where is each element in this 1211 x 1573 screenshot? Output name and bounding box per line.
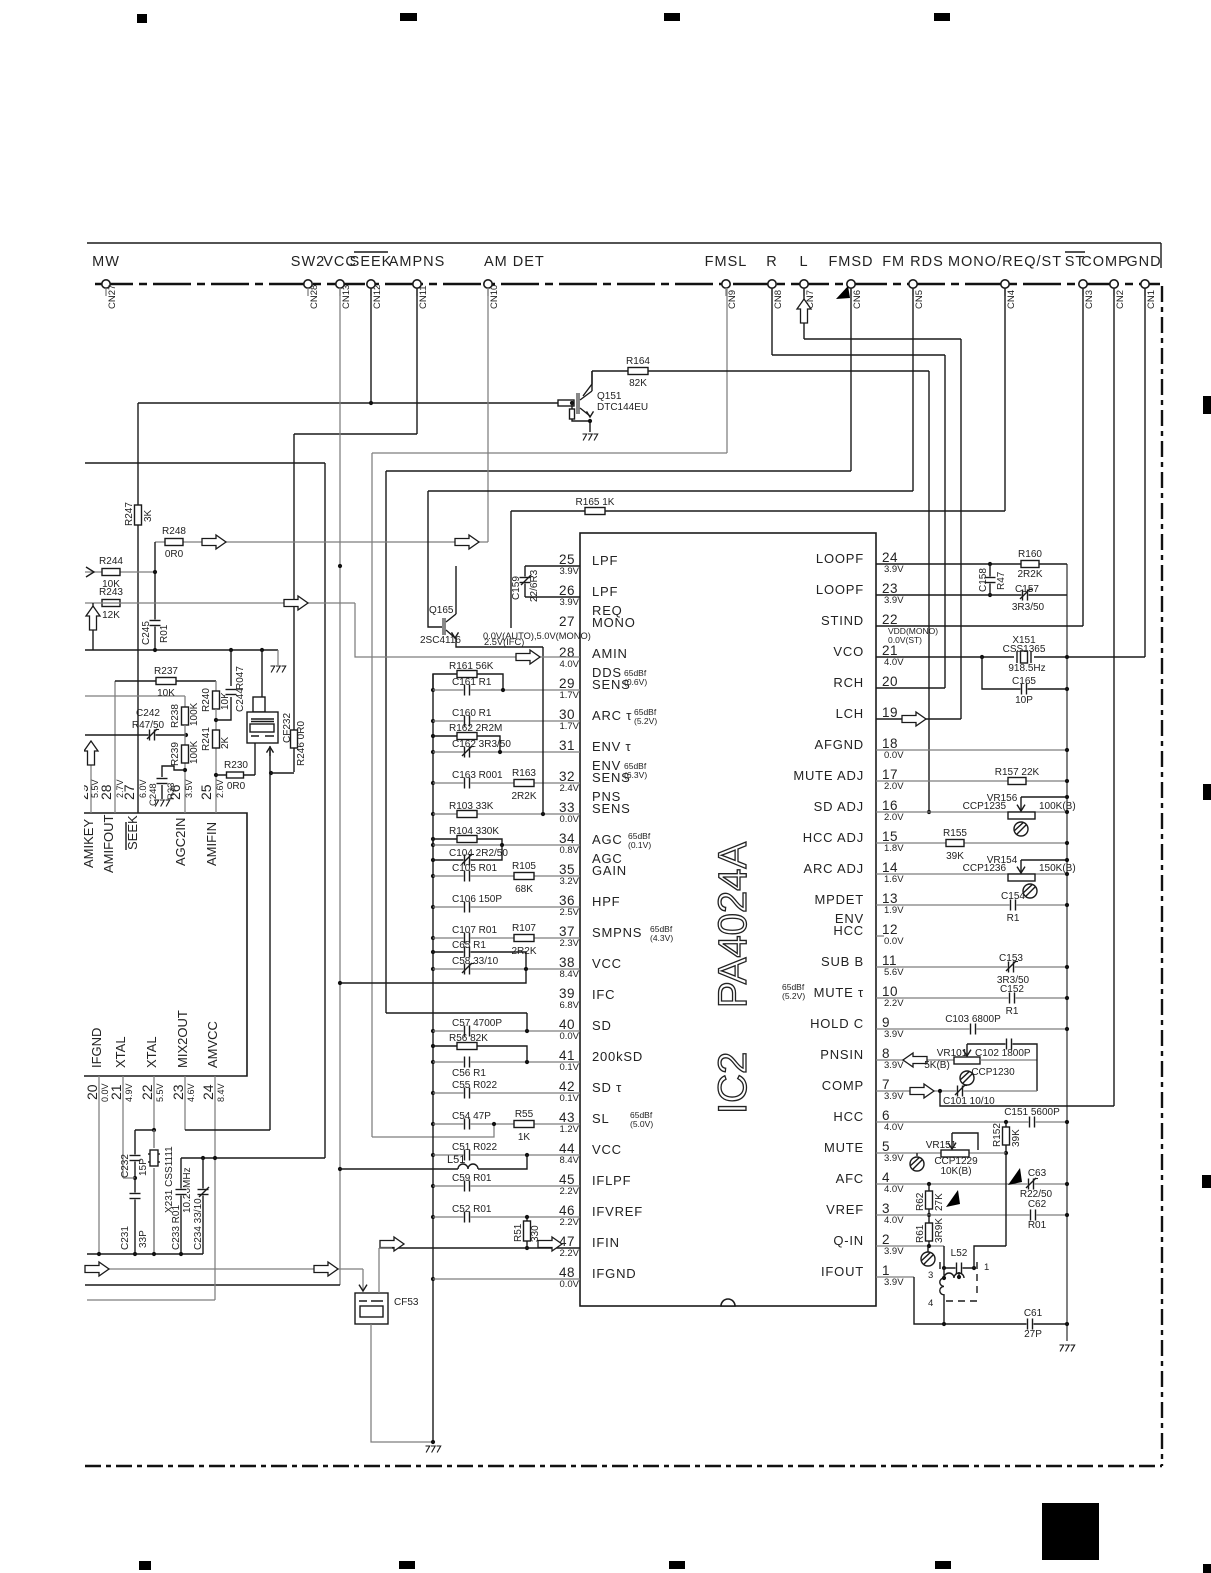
wire AMPNS horizontal jog [294,433,417,435]
svg-text:5.6V: 5.6V [884,967,904,978]
wire pin 18 AFGND row [876,749,1067,751]
svg-text:R01: R01 [159,624,170,643]
svg-text:29: 29 [559,676,575,691]
wire MIX2OUT riser up to CF232 [269,750,271,1130]
svg-text:(5.0V): (5.0V) [630,1119,653,1129]
resistor R51 330 (vertical) [526,1217,528,1248]
svg-text:C151 5600P: C151 5600P [1004,1107,1060,1118]
svg-text:C160 R1: C160 R1 [452,708,492,719]
wire pin 14 ARC ADJ row [876,873,1067,875]
svg-text:C56 R1: C56 R1 [452,1068,486,1079]
printer registration mark bottom-2 [399,1561,415,1569]
svg-text:22: 22 [139,1084,155,1100]
svg-text:0R0: 0R0 [227,781,246,792]
signal arrow on CF53 feed (right) [314,1262,338,1276]
wire FMSD vertical down to SD row [385,471,387,1013]
svg-text:R47/50: R47/50 [132,720,165,731]
svg-text:R162 2R2M: R162 2R2M [449,723,502,734]
svg-text:C157: C157 [1015,584,1039,595]
svg-text:R01: R01 [1028,1220,1047,1231]
resistor R61 3R9K (vertical) [928,1215,930,1246]
svg-text:SL: SL [592,1111,610,1126]
svg-text:IFGND: IFGND [592,1266,636,1281]
svg-text:27: 27 [121,784,137,800]
svg-text:1.7V: 1.7V [559,721,579,732]
svg-text:10: 10 [882,984,898,999]
resistor R55 1K (pin 43 row) [514,1121,534,1128]
svg-text:MONO: MONO [592,615,636,630]
capacitor C158 R47 (vertical) [989,564,991,595]
svg-text:CN28: CN28 [309,285,320,309]
svg-text:R62: R62 [915,1192,926,1211]
connector CN5 (FM RDS) [909,280,917,288]
svg-text:VR101: VR101 [937,1048,968,1059]
svg-text:SEEK: SEEK [350,254,393,270]
svg-text:0.0V: 0.0V [884,936,904,947]
capacitor C165 10P [982,657,1067,689]
svg-text:SEEK: SEEK [125,815,140,850]
IC1 pin 21 bottom stub [122,1076,124,1178]
svg-text:47: 47 [559,1234,575,1249]
svg-text:4.0V: 4.0V [884,1122,904,1133]
svg-text:MUTE ADJ: MUTE ADJ [793,768,864,783]
trimmer VR156 CCP1235 100K(B) [1008,812,1035,819]
printer registration mark right-1 [1203,396,1211,414]
svg-text:918.5Hz: 918.5Hz [1008,663,1045,674]
svg-text:1K: 1K [518,1132,531,1143]
resistor R105 68K (pin 35 row) [514,873,534,880]
junction dot VCC to Q165 collector [338,564,342,568]
svg-text:25: 25 [198,784,214,800]
svg-text:R247: R247 [124,502,135,526]
wire Q151 collector [583,371,592,396]
capacitor C102 1800P [967,1044,1037,1091]
svg-text:GAIN: GAIN [592,863,627,878]
svg-text:LPF: LPF [592,584,618,599]
svg-text:5.5V: 5.5V [90,779,100,798]
wire pin34 row [433,844,580,846]
svg-text:2.2V: 2.2V [559,1217,579,1228]
svg-text:AGC2IN: AGC2IN [173,818,188,866]
ceramic filter CF232 [253,697,265,712]
svg-text:10P: 10P [1015,695,1033,706]
svg-text:27: 27 [559,614,575,629]
printer registration mark bottom-right corner [1203,1564,1211,1573]
signal arrow at left edge x93 upper [92,603,94,650]
wire pin 23 LOOPF row with C157 [876,594,1067,596]
svg-text:ENV τ: ENV τ [592,739,632,754]
svg-text:Q-IN: Q-IN [833,1233,864,1248]
capacitor C107 (pin 37 row) [433,937,580,939]
svg-text:C51 R022: C51 R022 [452,1142,497,1153]
svg-text:LPF: LPF [592,553,618,568]
svg-text:2.0V: 2.0V [884,781,904,792]
svg-text:C103 6800P: C103 6800P [945,1014,1001,1025]
svg-text:SENS: SENS [592,801,631,816]
svg-text:0.0V: 0.0V [559,1031,579,1042]
svg-text:8.4V: 8.4V [559,969,579,980]
wire FM RDS vertical to Q165 base [428,491,443,627]
svg-text:2.4V: 2.4V [559,783,579,794]
IC IC1 body (partial, page-clipped) [83,813,247,1076]
connector CN28 (SW2) [304,280,312,288]
IC IC2 PA4024A body [580,533,876,1306]
svg-text:AFC: AFC [836,1171,864,1186]
signal arrow on LCH [902,712,926,726]
svg-text:3.9V: 3.9V [884,1091,904,1102]
svg-text:25: 25 [559,552,575,567]
ceramic filter CF53 [362,1269,364,1290]
svg-text:0.1V: 0.1V [559,1062,579,1073]
svg-text:1.6V: 1.6V [884,874,904,885]
printer registration mark bottom-4 [935,1561,951,1569]
svg-text:C107 R01: C107 R01 [452,925,497,936]
svg-text:38: 38 [559,955,575,970]
svg-text:4: 4 [928,1298,933,1309]
svg-text:(5.2V): (5.2V) [634,716,657,726]
wire pin27 riser vertical [510,511,512,628]
svg-text:C162 3R3/50: C162 3R3/50 [452,739,511,750]
capacitor C65 R1 [433,952,526,969]
svg-text:R238: R238 [170,704,181,728]
svg-text:C233 R01: C233 R01 [171,1205,182,1250]
svg-text:2.2V: 2.2V [884,998,904,1009]
svg-text:C101 10/10: C101 10/10 [943,1096,995,1107]
wire ST vertical from CN3 [1082,288,1084,626]
svg-text:R33: R33 [166,783,177,800]
capacitor C248 R33 [162,766,185,777]
svg-text:100K: 100K [189,740,200,764]
svg-text:4.0V: 4.0V [559,659,579,670]
svg-text:3.9V: 3.9V [884,1153,904,1164]
wire L horizontal to LCH riser [804,338,961,340]
svg-text:33P: 33P [138,1230,149,1248]
capacitor C153 3R3/50 [1008,961,1015,973]
printer registration mark top-2 [400,13,417,21]
svg-text:HCC ADJ: HCC ADJ [803,830,864,845]
svg-text:R56 82K: R56 82K [449,1033,488,1044]
transistor Q165 2SC4116 [442,618,446,635]
capacitor C231 33P [134,1178,136,1254]
svg-text:3.2V: 3.2V [559,876,579,887]
adjust symbol for VR154 [1023,884,1037,898]
svg-text:R103 33K: R103 33K [449,801,494,812]
svg-text:R1: R1 [1006,1006,1019,1017]
svg-text:CCP1230: CCP1230 [971,1067,1015,1078]
svg-text:3: 3 [928,1270,933,1281]
svg-text:2.6V: 2.6V [215,779,225,798]
signal arrow on R243 line [284,596,308,610]
svg-text:21: 21 [882,643,898,658]
svg-text:CN3: CN3 [1084,290,1095,309]
svg-text:COMP: COMP [822,1078,864,1093]
svg-text:R107: R107 [512,923,536,934]
svg-text:4.0V: 4.0V [884,1184,904,1195]
wire pin 17 MUTE ADJ row [876,780,1067,782]
wire AM DET / R248 line [155,541,488,543]
svg-text:13: 13 [882,891,898,906]
svg-text:FMSL: FMSL [705,254,748,270]
svg-text:37: 37 [559,924,575,939]
connector CN1 (GND) [1141,280,1149,288]
svg-text:68K: 68K [515,884,533,895]
svg-text:39: 39 [559,986,575,1001]
wire R164 line y371 [592,370,929,372]
wire pin 11 SUB B row [876,966,1067,968]
svg-text:L52: L52 [951,1248,968,1259]
svg-text:C161 R1: C161 R1 [452,677,492,688]
IC1 clipped top pin with arrow [90,762,92,813]
svg-text:GND: GND [1126,254,1161,270]
svg-text:CF53: CF53 [394,1297,419,1308]
resistor R239 100K (vertical) [182,745,189,763]
inductor L51 [340,1168,458,1170]
capacitor C105 (pin 35 row) [433,875,580,877]
svg-text:R239: R239 [170,742,181,766]
capacitor C59 (pin 45 row) [433,1185,580,1187]
svg-text:35: 35 [559,862,575,877]
resistor R246 0R0 (vertical) [291,730,298,748]
svg-text:R165 1K: R165 1K [576,497,615,508]
connector CN27 (MW) [102,280,110,288]
resistor R103 33K (pin 33 row) [433,813,580,815]
svg-text:VCC: VCC [592,1142,622,1157]
board outline solid top line [87,242,1161,244]
svg-text:3R3/50: 3R3/50 [1012,602,1045,613]
svg-text:Q165: Q165 [429,605,454,616]
wire CF53 feed from left edge [87,1268,363,1270]
svg-text:2.0V: 2.0V [884,812,904,823]
svg-text:VREF: VREF [826,1202,864,1217]
svg-text:1.8V: 1.8V [884,843,904,854]
connector CN2 (COMP) [1110,280,1118,288]
svg-text:R61: R61 [915,1224,926,1243]
svg-text:SD: SD [592,1018,612,1033]
svg-text:12K: 12K [102,610,120,621]
svg-text:CSS1365: CSS1365 [1003,644,1046,655]
svg-text:2: 2 [882,1232,890,1247]
wire FMSL jog to pin 43 [372,1124,494,1137]
svg-text:C61: C61 [1024,1308,1043,1319]
svg-text:21: 21 [108,1084,124,1100]
svg-text:43: 43 [559,1110,575,1125]
svg-text:2R2K: 2R2K [1017,569,1042,580]
svg-text:24: 24 [882,550,898,565]
arrow into CF232 bottom [269,746,271,756]
svg-text:C106 150P: C106 150P [452,894,502,905]
resistor R104 330K [433,839,502,845]
wire pin 48 IFGND [433,1278,580,1280]
svg-text:1.9V: 1.9V [884,905,904,916]
wire decoupling bus vertical (left of IC2) [432,674,434,1442]
IC1 pin 23 bottom stub (MIX2OUT) [184,1076,186,1130]
connector CN13 (VCC) [336,280,344,288]
wire SEEK horizontal to Q151 base [138,402,562,404]
svg-text:3.9V: 3.9V [884,1277,904,1288]
wire FMSL route vertical down to pin43 row [371,453,373,1137]
capacitor C56 (pin 41 row) [433,1061,580,1063]
svg-text:1.2V: 1.2V [559,1124,579,1135]
IC1 pin 22 bottom stub (to X231) [153,1076,155,1254]
svg-text:19: 19 [882,705,898,720]
svg-text:R47: R47 [996,571,1007,590]
svg-text:27P: 27P [1024,1329,1042,1340]
svg-text:5: 5 [882,1139,890,1154]
wire vertical R164 to pin16 row [928,371,930,812]
svg-text:C163 R001: C163 R001 [452,770,503,781]
svg-text:12: 12 [882,922,898,937]
svg-text:22: 22 [882,612,898,627]
svg-text:R161 56K: R161 56K [449,661,494,672]
ground for decoupling bus [426,1446,430,1453]
printer registration mark right-2 [1202,1175,1211,1188]
svg-text:R152: R152 [992,1123,1003,1147]
wire pin 12 stub [876,935,884,937]
svg-text:C248: C248 [148,783,159,806]
printer registration mark right-1b [1203,784,1211,800]
capacitor C104 2R2/50 [433,845,502,860]
signal arrow on L wire [797,299,811,323]
svg-text:C104 2R2/50: C104 2R2/50 [449,848,508,859]
svg-text:4: 4 [882,1170,890,1185]
trimmer VR154 CCP1236 150K(B) [1008,874,1035,881]
signal arrow into pin47 (right) [538,1237,562,1251]
svg-text:C153: C153 [999,953,1023,964]
svg-text:Q151: Q151 [597,391,622,402]
svg-text:R230: R230 [224,760,248,771]
capacitor C106 (pin 36 row) [433,906,580,908]
svg-text:C57 4700P: C57 4700P [452,1018,502,1029]
resistor R244 10K [85,571,155,573]
IC1 pin 25 top stub [215,775,217,813]
crystal X151 CSS1365 [1014,649,1034,665]
svg-text:45: 45 [559,1172,575,1187]
ground rail y650 [85,649,278,651]
ground at rail end [277,650,279,665]
svg-text:IFGND: IFGND [89,1028,104,1068]
svg-text:41: 41 [559,1048,575,1063]
svg-text:200kSD: 200kSD [592,1049,643,1064]
svg-text:0.8V: 0.8V [559,845,579,856]
svg-text:ARC ADJ: ARC ADJ [803,861,864,876]
svg-text:2.3V: 2.3V [559,938,579,949]
svg-text:3.9V: 3.9V [884,1029,904,1040]
svg-text:IC2: IC2 [711,1052,755,1114]
svg-text:HCC: HCC [833,1109,864,1124]
svg-text:IFLPF: IFLPF [592,1173,631,1188]
wire pin 2 Q-IN row [876,1245,944,1247]
svg-text:30: 30 [559,707,575,722]
pointer triangle at CN6 [836,286,850,299]
svg-text:0.0V: 0.0V [559,1279,579,1290]
wire pin 24 LOOPF row [876,563,1021,565]
svg-text:C234 33/10: C234 33/10 [193,1198,204,1250]
svg-text:0.0V: 0.0V [559,814,579,825]
signal arrow into pin47 (left) [380,1237,404,1251]
svg-text:330: 330 [530,1225,541,1242]
resistor R163 2R2K (pin 32 row) [514,780,534,787]
svg-text:HOLD C: HOLD C [810,1016,864,1031]
wire R CN8 vertical [771,288,773,355]
svg-text:8.4V: 8.4V [559,1155,579,1166]
svg-text:100K(B): 100K(B) [1039,801,1076,812]
wire pin 20 RCH to R riser [876,687,945,689]
svg-text:C159: C159 [511,576,522,600]
svg-text:(6.3V): (6.3V) [624,770,647,780]
wire STIND pin22 to ST connector [876,625,1083,627]
svg-text:C65 R1: C65 R1 [452,940,486,951]
ground for Q151 emitter [583,434,587,441]
capacitor C55 (pin 42 row) [433,1092,580,1094]
crystal X231 CSS1111 10.26MHz [153,1130,155,1254]
capacitor C233 R01 [180,1158,182,1254]
svg-text:SUB B: SUB B [821,954,864,969]
svg-text:2.5V(IFC): 2.5V(IFC) [484,637,524,647]
capacitor C234 33/10 [202,1158,204,1254]
svg-text:AMIN: AMIN [592,646,628,661]
svg-text:4.0V: 4.0V [884,657,904,668]
wire CF232 left pin down [254,743,256,775]
wire L CN7 vertical [803,288,805,339]
svg-text:3.9V: 3.9V [884,1246,904,1257]
svg-text:R1: R1 [1007,913,1020,924]
svg-text:0R0: 0R0 [165,549,184,560]
capacitor C232 15P [134,1130,136,1178]
svg-text:AM DET: AM DET [484,254,545,270]
page cut mask left [0,300,84,1460]
svg-text:40: 40 [559,1017,575,1032]
svg-text:CN6: CN6 [852,290,863,309]
resistor R62 27K (vertical) [928,1184,930,1215]
capacitor C161 (pin 29 row) [433,689,580,691]
svg-text:PNSIN: PNSIN [820,1047,864,1062]
svg-text:R241: R241 [201,727,212,751]
svg-text:C242: C242 [136,708,160,719]
svg-text:CN11: CN11 [418,285,429,309]
svg-text:AGC: AGC [592,832,623,847]
IC2 bottom notch [721,1299,735,1306]
wire FMSL route horizontal [372,452,727,454]
capacitor C163 (pin 32 row) [433,782,580,784]
wire GND vertical from CN1 [1144,288,1146,657]
svg-text:32: 32 [559,769,575,784]
svg-text:150K(B): 150K(B) [1039,863,1076,874]
svg-text:28: 28 [98,784,114,800]
svg-text:MUTE τ: MUTE τ [814,985,864,1000]
svg-text:4.9V: 4.9V [124,1083,134,1102]
svg-text:MONO/REQ/ST: MONO/REQ/ST [948,254,1062,270]
svg-text:C152: C152 [1000,984,1024,995]
svg-text:CCP1236: CCP1236 [963,863,1007,874]
svg-text:39K: 39K [1011,1129,1022,1147]
svg-text:C52 R01: C52 R01 [452,1204,492,1215]
svg-text:28: 28 [559,645,575,660]
connector CN8 (R) [768,280,776,288]
svg-text:33: 33 [559,800,575,815]
wire pin 16 SD ADJ row [876,811,1067,813]
signal arrow into AMIN [516,650,540,664]
capacitor C152 R1 [1009,992,1016,1004]
svg-text:C154: C154 [1001,891,1025,902]
trimmer VR151 CCP1229 10K(B) [941,1150,969,1157]
svg-text:0.1V: 0.1V [559,1093,579,1104]
svg-text:XTAL: XTAL [144,1036,159,1068]
resistor R238 100K (vertical) [184,696,186,708]
svg-text:CN13: CN13 [341,285,352,309]
svg-text:R248: R248 [162,526,186,537]
svg-text:MPDET: MPDET [815,892,865,907]
svg-text:C232: C232 [120,1154,131,1178]
